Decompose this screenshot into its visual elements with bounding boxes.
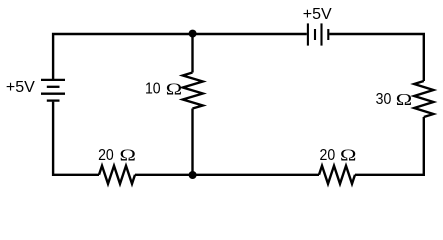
svg-text:Ω: Ω (396, 91, 412, 109)
wire: node A down to resistor R1 top (191, 34, 193, 73)
label 30 ohm for resistor R3 (376, 91, 413, 109)
node B junction dot (bottom middle) (189, 171, 197, 179)
svg-text:Ω: Ω (166, 81, 182, 99)
label 20 ohm for resistor R2 (98, 147, 136, 165)
svg-text:Ω: Ω (120, 147, 136, 165)
battery V2 +5V (top, horizontal) (308, 23, 328, 45)
wire: bottom middle, resistor R2 right end through node B to resistor R4 left end (135, 174, 319, 176)
wire: resistor R2 left end to bottom-left corner up to battery V1 - plate (53, 102, 99, 175)
svg-text:20: 20 (98, 147, 114, 164)
node A junction dot (top middle) (189, 30, 197, 38)
resistor R1 10 ohm (vertical zigzag) (183, 73, 203, 109)
label 20 ohm for resistor R4 (320, 147, 357, 165)
svg-text:Ω: Ω (340, 147, 356, 165)
svg-text:20: 20 (320, 147, 336, 164)
wire: battery V2 right plate to top-right corner down to resistor R3 top (329, 34, 424, 81)
resistor R4 20 ohm (bottom-right horizontal zigzag) (319, 166, 355, 184)
battery V1 +5V (left, vertical) (41, 80, 65, 101)
svg-text:10: 10 (145, 81, 161, 98)
wire: resistor R3 bottom to bottom-right corner to resistor R4 right end (355, 117, 424, 175)
resistor R3 30 ohm (right vertical zigzag) (414, 81, 433, 117)
resistor R2 20 ohm (bottom-left horizontal zigzag) (99, 166, 135, 184)
label 10 ohm for resistor R1 (145, 81, 182, 99)
wire: battery V1 + up through top-left corner to battery V2 left plate (53, 34, 307, 79)
svg-text:+5V: +5V (6, 79, 35, 96)
svg-text:30: 30 (376, 91, 392, 108)
wire: resistor R1 bottom down to node B (191, 109, 193, 175)
svg-text:+5V: +5V (303, 6, 332, 23)
